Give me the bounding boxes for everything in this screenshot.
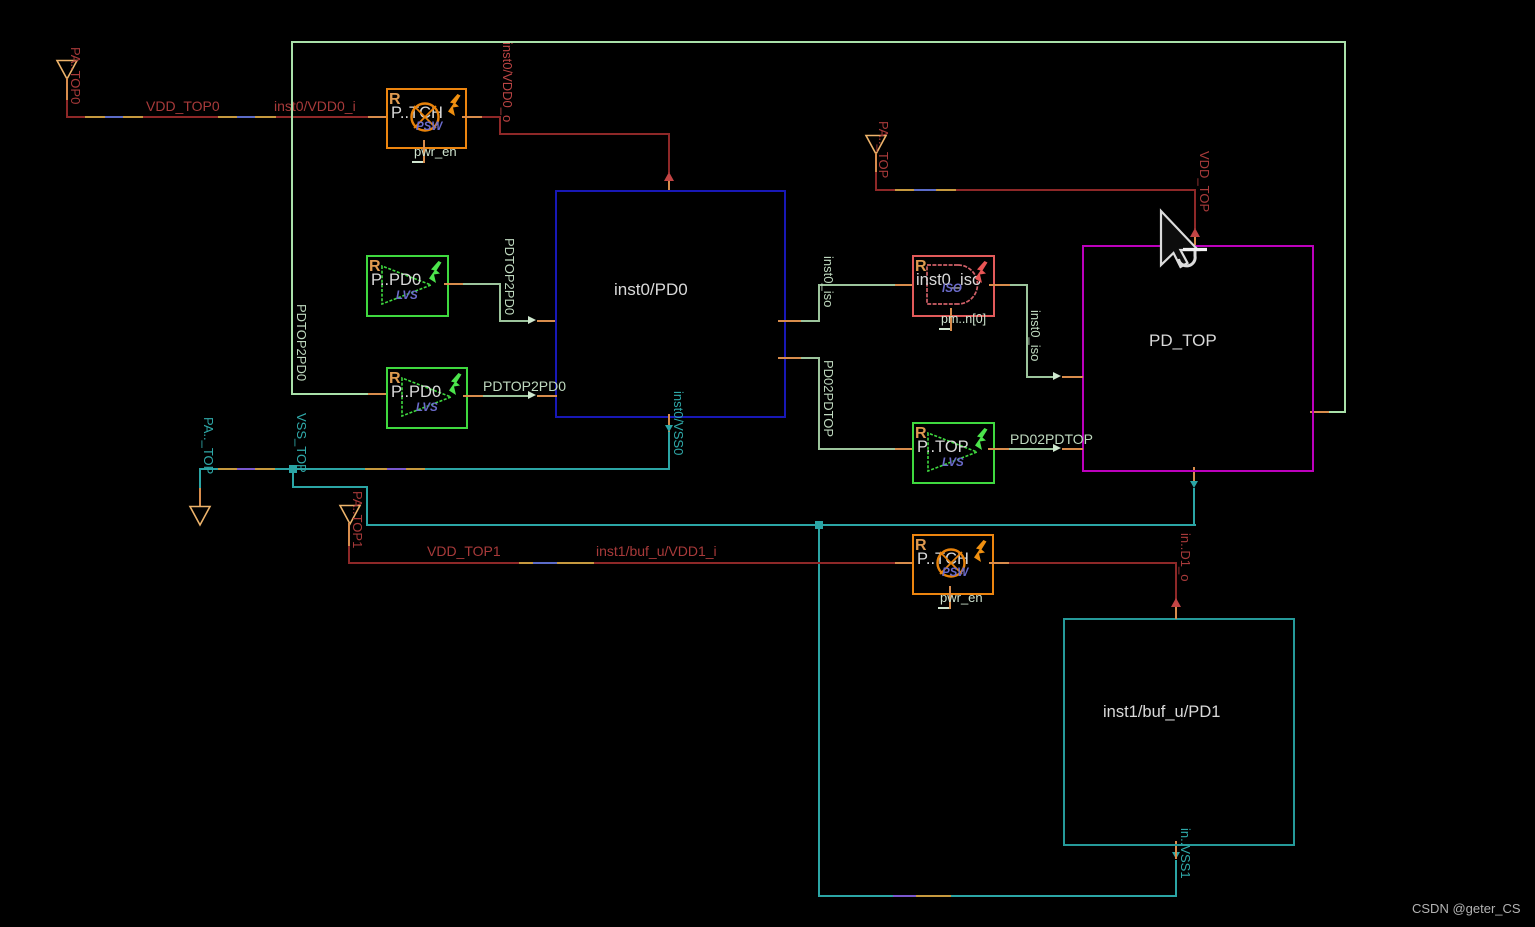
P.PD0 #2 sub-label LVS (416, 402, 438, 415)
pin stub into PD_TOP top (orange) (1194, 237, 1196, 247)
P..TCH #2 sub-label PSW (942, 567, 968, 580)
wire VSS_TOP branch down from junction (teal) (292, 470, 294, 488)
P..TCH #2 pwr_en bracket (pale green) (938, 607, 949, 609)
wire inst0_iso drop (mint) (1026, 284, 1028, 378)
net colour dash tan (365, 468, 387, 470)
net colour dash tan (123, 116, 143, 118)
P..TCH #1 switch icon (circle with X) (409, 101, 441, 133)
wire VDD_TOP1 vertical (red) (348, 546, 350, 564)
net colour dash purple (387, 468, 406, 470)
wire PD_TOP VSS vertical (teal) (1193, 488, 1195, 526)
arrow up at inst1 top pin (crimson) (1171, 598, 1181, 607)
P.PD0 #2 reference letter R (389, 371, 401, 386)
wire PDTOP2PD0 from P.PD0#2 into inst0/PD0 (mint) (483, 395, 529, 397)
P..TCH #2 switch icon (circle with X) (935, 547, 967, 579)
net colour dash tan (557, 562, 594, 564)
label PDTOP2PD0 (vertical, left edge) (295, 304, 308, 381)
wire inst0_iso into PD_TOP (mint) (1026, 376, 1054, 378)
label PA..TOP0 (69, 47, 82, 104)
level shifter P.PD0 #2 (box) (386, 367, 468, 429)
arrow up at PD_TOP top pin (crimson) (1190, 228, 1200, 237)
wire VSS_TOP horizontal (teal) (199, 468, 670, 470)
label VDD_TOP0 (146, 99, 220, 113)
P..TCH #1 name text (391, 105, 443, 121)
net colour dash tan (255, 468, 275, 470)
label VSS_TOP (vertical) (295, 413, 308, 473)
label inst0/VDD0_o (vertical) (501, 42, 514, 122)
pin stub inst0/PD0 right lower (orange) (778, 357, 801, 359)
wire iso output stub (orange) (989, 284, 1010, 286)
net colour dash tan (936, 189, 956, 191)
port PA.._TOP (pad triangle, top-middle) (864, 134, 888, 156)
label PDTOP2PD0 (horizontal) (483, 379, 566, 393)
wire PDTOP2PD0 into P.PD0#2 (mint) (291, 393, 368, 395)
wire net PDTOP2PD0 ring bottom segment (mint) (1328, 411, 1346, 413)
pin stub into P..TCH #2 (orange) (895, 562, 914, 564)
label VDD_TOP1 (427, 544, 501, 558)
port PA..TOP0 (pad triangle, top-left) (55, 59, 79, 81)
pin stub into PD_TOP left (orange) (1062, 376, 1083, 378)
wire VSS_TOP long horizontal (teal) (366, 524, 1196, 526)
net colour dash blue (105, 116, 123, 118)
pin stub into inst0/PD0 top (orange) (668, 181, 670, 192)
power switch cell P..TCH #1 (box) (386, 88, 467, 149)
port stub down (orange) (875, 153, 877, 173)
watermark CSDN (1412, 902, 1521, 916)
label inst0_iso (vertical, right) (1029, 310, 1042, 361)
net colour dash purple (237, 468, 255, 470)
net colour dash blue (533, 562, 557, 564)
isolation cell inst0_iso (box) (912, 255, 995, 317)
pin stub inst0/PD0 bottom (orange) (668, 414, 670, 433)
wire VDD_TOP vertical (red) (875, 172, 877, 191)
label PA.._TOP (red vertical) (877, 121, 890, 178)
P..TCH #1 lightning icon (447, 94, 462, 117)
net colour dash tan (519, 562, 533, 564)
label PD_TOP (1149, 332, 1217, 349)
net colour dash tan (255, 116, 276, 118)
arrow down at inst1 bottom pin (teal) (1172, 852, 1180, 859)
iso cell sub-label ISO (942, 283, 962, 296)
pin stub PD_TOP bottom (orange) (1193, 467, 1195, 481)
wire VDD_TOP horizontal (red) (875, 189, 1196, 191)
label inst1/buf_u/PD1 (1103, 704, 1220, 721)
P.PD0 #1 name text (371, 272, 421, 288)
P..TOP lightning icon (974, 428, 989, 451)
wire VSS_TOP branch horizontal (teal) (292, 486, 368, 488)
wire P..TOP output stub (orange) (988, 448, 1009, 450)
P..TOP reference letter R (915, 426, 927, 441)
wire inst0/VDD0_o horizontal (red) (482, 116, 501, 118)
arrow right into PD_TOP pin (pale mint) (1053, 372, 1061, 380)
wire net PDTOP2PD0 ring left edge (mint) (291, 41, 293, 395)
wire inst0_iso horizontal into iso cell (mint) (818, 284, 895, 286)
pin stub into inst0/PD0 left (orange) (537, 320, 557, 322)
net colour dash purple (893, 895, 916, 897)
iso cell pm..n[0] pin stub (orange) (950, 308, 952, 331)
mouse cursor (1157, 208, 1221, 272)
net colour dash blue (914, 189, 936, 191)
arrow down on inst0/VSS0 wire (teal) (665, 425, 673, 432)
P..TOP buffer triangle icon (927, 432, 979, 472)
pin stub into P..TCH (orange) (368, 116, 387, 118)
pin stub into inst0/PD0 lower left (orange) (537, 395, 557, 397)
net colour dash tan (916, 895, 951, 897)
port PA..TOP1 (pad triangle) (338, 504, 362, 526)
P..TCH #1 reference letter R (389, 92, 401, 107)
label PA.._TOP (teal vertical) (202, 417, 215, 474)
wire VDD_TOP0 horizontal (red) (66, 116, 387, 118)
wire in..D1_o vertical (red) (1175, 562, 1177, 600)
P..TCH #2 reference letter R (915, 538, 927, 553)
net colour dash tan (218, 468, 237, 470)
arrow right into PD_TOP lower pin (pale mint) (1053, 444, 1061, 452)
label inst0/VDD0_i (274, 99, 356, 113)
label inst1/buf_u/VDD1_i (596, 544, 717, 558)
port PA.._TOP (pad triangle, bottom-left) (188, 505, 212, 527)
wire PDTOP2PD0 jog down (mint) (499, 283, 501, 322)
P.PD0 #2 lightning icon (448, 373, 463, 396)
pin stub into iso cell (orange) (895, 284, 914, 286)
P..TCH #1 pwr_en bracket (pale green) (412, 161, 423, 163)
level shifter P.PD0 #1 (box) (366, 255, 449, 317)
wire PD02PDTOP drop (mint) (818, 357, 820, 450)
P..TCH #1 label pwr_en (414, 145, 457, 158)
wire P..TCH #1 output stub (orange) (462, 116, 482, 118)
P..TCH #1 pwr_en pin stub (orange, down) (423, 140, 425, 163)
wire VSS_TOP drop to bottom loop (teal) (818, 524, 820, 897)
iso cell reference letter R (915, 259, 927, 274)
P..TCH #2 label pwr_en (940, 591, 983, 604)
pin stub at PD_TOP right edge (orange) (1310, 411, 1329, 413)
junction square on VSS_TOP (teal) (289, 465, 297, 473)
pin stub into PD_TOP lower left (orange) (1062, 448, 1083, 450)
P..TOP name text (917, 439, 969, 455)
arrow up at inst0/PD0 top pin (crimson) (664, 172, 674, 181)
label PD02PDTOP (horizontal) (1010, 432, 1093, 446)
wire VSS_TOP rise to inst1 (teal) (1175, 860, 1177, 897)
module inst1/buf_u/PD1 (teal box) (1063, 618, 1295, 846)
P.PD0 #2 buffer triangle icon (401, 377, 453, 417)
label VDD_TOP (vertical) (1198, 151, 1211, 212)
wire VDD_TOP vertical drop to PD_TOP (red) (1194, 189, 1196, 229)
pin stub into P..TOP (orange) (895, 448, 914, 450)
junction square on VSS_TOP lower run (teal) (815, 521, 823, 529)
wire inst0_iso from PD0 (mint) (801, 320, 820, 322)
label PA..TOP1 (red vertical) (351, 491, 364, 548)
P..TCH #1 sub-label PSW (416, 121, 442, 134)
label PDTOP2PD0 (vertical, at wire from P.PD0#1) (503, 238, 516, 315)
label inst0/VSS0 (vertical) (672, 391, 685, 455)
label in..D1_o (vertical) (1179, 533, 1192, 581)
wire PDTOP2PD0 from P.PD0#1 (mint) (463, 283, 501, 285)
arrow right into inst0/PD0 lower pin (pale mint) (528, 391, 536, 399)
iso cell lightning icon (974, 261, 989, 284)
wire VDD_TOP0 vertical (red) (66, 100, 68, 118)
net colour dash tan (406, 468, 425, 470)
net colour dash tan (895, 189, 914, 191)
wire VSS_TOP bottom run (teal) (818, 895, 1177, 897)
wire net PDTOP2PD0 ring right edge (mint) (1344, 41, 1346, 413)
wire P..TCH #2 output stub (orange) (989, 562, 1009, 564)
pin stub inst0/PD0 right upper (orange) (778, 320, 801, 322)
label pm..n[0] (941, 313, 986, 326)
P..TCH #2 name text (917, 551, 969, 567)
wire inst0_iso rise (mint) (818, 284, 820, 322)
label PD02PDTOP (vertical) (822, 360, 835, 437)
label in..VSS1 (vertical) (1179, 828, 1192, 879)
wire inst0_iso output (mint) (1010, 284, 1028, 286)
pin stub inst1 bottom (orange) (1175, 841, 1177, 859)
wire inst0/VDD0_o vertical jog (red) (499, 116, 501, 135)
iso cell name text (916, 272, 981, 288)
arrow down on PD_TOP VSS wire (teal) (1190, 481, 1198, 488)
wire inst0/VSS0 vertical (teal) (668, 432, 670, 470)
level shifter P..TOP (box) (912, 422, 995, 484)
iso cell bracket (pale green) (939, 328, 950, 330)
wire VDD_TOP1 horizontal (red) (348, 562, 895, 564)
wire in..D1_o horizontal (red) (1009, 562, 1177, 564)
net colour dash blue (237, 116, 255, 118)
P..TCH #2 pwr_en pin stub (orange, down) (949, 586, 951, 609)
pin stub into P.PD0#2 (orange) (368, 393, 387, 395)
pin stub into inst1 top (orange) (1175, 607, 1177, 619)
wire inst0/VDD0_o vertical down to PD0 (red) (668, 133, 670, 173)
arrow right into inst0/PD0 pin (pale mint) (528, 316, 536, 324)
net colour dash tan (218, 116, 237, 118)
port stub PA.._TOP (orange) (199, 488, 201, 507)
wire VSS_TOP left drop (teal) (199, 468, 201, 488)
module inst0/PD0 (blue box) (555, 190, 786, 418)
net colour dash tan (85, 116, 105, 118)
P.PD0 #2 name text (391, 384, 441, 400)
label inst0_iso (vertical, left) (822, 256, 835, 307)
P..TOP sub-label LVS (942, 457, 964, 470)
wire VSS_TOP branch down (teal) (366, 486, 368, 526)
wire port PA..TOP0 stub down (orange) (66, 78, 68, 100)
P.PD0 #1 reference letter R (369, 259, 381, 274)
P.PD0 #1 lightning icon (428, 261, 443, 284)
iso cell D-gate icon (925, 264, 979, 306)
P..TCH #2 lightning icon (973, 540, 988, 563)
wire PD02PDTOP into P..TOP (mint) (818, 448, 895, 450)
wire net PDTOP2PD0 ring top edge (mint) (291, 41, 1345, 43)
wire P.PD0#1 output stub (orange) (444, 283, 464, 285)
wire PD02PDTOP from PD0 (mint) (801, 357, 820, 359)
wire PD02PDTOP output (mint) (1009, 448, 1054, 450)
wire inst0/VDD0_o horizontal run (red) (499, 133, 670, 135)
label inst0/PD0 (614, 281, 688, 298)
wire PDTOP2PD0 into inst0/PD0 (mint) (499, 320, 529, 322)
module PD_TOP (magenta box) (1082, 245, 1314, 472)
P.PD0 #1 sub-label LVS (396, 290, 418, 303)
port stub down (orange) (348, 523, 350, 548)
P.PD0 #1 buffer triangle icon (381, 265, 433, 305)
power switch cell P..TCH #2 (box) (912, 534, 994, 595)
wire P.PD0#2 output stub (orange) (463, 395, 483, 397)
